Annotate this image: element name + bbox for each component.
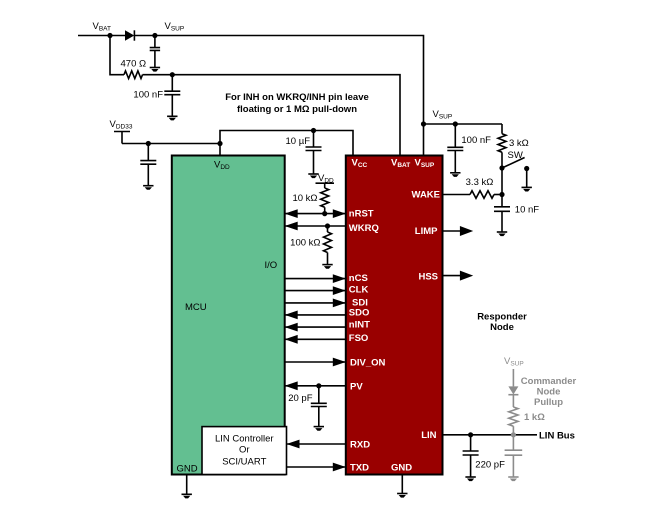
wire HSS: [443, 275, 461, 277]
arrow SDI right: [333, 299, 346, 308]
capacitor C3 (VDD33): [140, 144, 156, 186]
wire R3 to ground: [327, 253, 329, 265]
wire VSUP to R4: [501, 124, 503, 134]
svg-text:SCI/UART: SCI/UART: [222, 457, 266, 468]
wire TXD: [287, 466, 346, 468]
wire to MCU VDD pin: [219, 144, 221, 156]
wire SDO: [285, 314, 346, 316]
wire MCU GND: [186, 475, 188, 495]
arrow RXD left: [287, 440, 300, 449]
arrow SDO left: [285, 311, 298, 320]
ground MCU: [182, 494, 192, 498]
wire R5 to node: [494, 194, 502, 196]
svg-text:nCS: nCS: [349, 273, 368, 284]
node junction VDD/VCC: [217, 141, 222, 146]
wire VSUP rail to VSUP pin: [134, 36, 423, 156]
ground C2: [167, 116, 177, 120]
svg-text:Or: Or: [239, 445, 250, 456]
svg-text:MCU: MCU: [185, 302, 207, 313]
svg-text:FSO: FSO: [349, 333, 369, 344]
wire PV: [285, 385, 346, 387]
svg-text:10 nF: 10 nF: [515, 204, 539, 215]
arrow nINT left: [285, 323, 298, 332]
svg-text:10 kΩ: 10 kΩ: [292, 193, 317, 204]
svg-text:For INH on WKRQ/INH pin leave: For INH on WKRQ/INH pin leave: [225, 92, 369, 103]
svg-text:CLK: CLK: [349, 284, 369, 295]
svg-text:LIMP: LIMP: [415, 226, 438, 237]
ground C4: [308, 174, 318, 178]
svg-text:Responder: Responder: [477, 312, 527, 323]
arrow PV left: [285, 381, 298, 390]
ground C5: [314, 427, 324, 431]
node junction WAKE: [499, 192, 504, 197]
wire nRST: [285, 213, 346, 215]
ground C7: [497, 232, 507, 236]
svg-text:3.3 kΩ: 3.3 kΩ: [466, 177, 494, 188]
wire RXD: [287, 443, 346, 445]
ground C9 (gray): [508, 477, 518, 481]
node junction PV cap: [316, 383, 321, 388]
ground C6: [450, 173, 460, 177]
node junction 100nF: [170, 72, 175, 77]
arrow nRST left: [285, 209, 298, 218]
svg-text:HSS: HSS: [418, 272, 438, 283]
svg-text:nRST: nRST: [349, 209, 374, 220]
svg-text:Node: Node: [490, 322, 514, 333]
node junction VDD33 cap: [146, 141, 151, 146]
diode D1: [125, 30, 134, 40]
svg-text:nINT: nINT: [349, 319, 370, 330]
wire VCC rail: [220, 131, 353, 156]
arrow nRST right: [333, 209, 346, 218]
capacitor C6 100 nF: [447, 124, 463, 173]
wire R4 to switch node: [501, 152, 503, 194]
transceiver IC box U1: [346, 156, 443, 475]
svg-text:floating or 1 MΩ pull-down: floating or 1 MΩ pull-down: [237, 104, 357, 115]
svg-text:3 kΩ: 3 kΩ: [509, 138, 529, 149]
resistor R1 470ohm: [124, 71, 143, 79]
capacitor C5 20 pF: [311, 386, 327, 427]
capacitor C8 220 pF: [463, 435, 479, 477]
wire R2 to nRST: [324, 207, 326, 213]
wire WKRQ to R3: [327, 226, 329, 232]
node junction nRST: [322, 211, 327, 216]
wire diode to R6: [512, 395, 514, 407]
arrow WKRQ left: [285, 222, 298, 231]
LIN controller box U3: [202, 427, 287, 475]
resistor R3 100 kohm: [324, 232, 332, 253]
capacitor C1 (VSUP filter): [150, 36, 160, 68]
wire VBAT rail: [78, 35, 125, 37]
node junction WKRQ: [325, 223, 330, 228]
MCU box: [172, 156, 285, 475]
switch SW contact: [524, 166, 529, 171]
wire SDI: [285, 302, 346, 304]
arrow DIV_ON right: [333, 358, 346, 367]
svg-text:100 nF: 100 nF: [461, 135, 491, 146]
node junction 10uF: [311, 128, 316, 133]
svg-text:100 nF: 100 nF: [133, 89, 163, 100]
node junction VBAT: [107, 33, 112, 38]
wire VDD33 rail: [122, 143, 220, 145]
svg-text:I/O: I/O: [265, 260, 278, 271]
wire LIMP: [443, 230, 461, 232]
node junction VSUP-diode: [152, 33, 157, 38]
node junction VSUP branch: [421, 121, 426, 126]
ground IC: [397, 494, 407, 498]
wire WAKE: [443, 194, 471, 196]
wire VBAT to 470 ohm: [110, 36, 124, 75]
svg-text:PV: PV: [350, 382, 363, 393]
svg-text:RXD: RXD: [350, 440, 370, 451]
svg-text:DIV_ON: DIV_ON: [350, 358, 386, 369]
wire switch to ground: [526, 169, 528, 188]
svg-text:470 Ω: 470 Ω: [121, 59, 147, 70]
svg-text:TXD: TXD: [350, 463, 369, 474]
resistor R5 3.3 kohm: [470, 191, 494, 199]
svg-text:LIN: LIN: [421, 430, 436, 441]
svg-text:1 kΩ: 1 kΩ: [524, 412, 545, 423]
switch SW blade: [502, 158, 525, 169]
svg-text:100 kΩ: 100 kΩ: [290, 238, 320, 249]
arrow LIMP: [460, 226, 473, 236]
resistor R4 3 kohm: [498, 134, 506, 153]
arrow HSS: [460, 271, 473, 281]
wire DIV_ON: [285, 361, 346, 363]
ground SW: [522, 187, 532, 191]
wire WKRQ: [285, 225, 346, 227]
ground C8: [465, 477, 475, 481]
arrow CLK right: [333, 286, 346, 295]
svg-text:Commander: Commander: [521, 376, 577, 387]
svg-text:SDO: SDO: [349, 307, 370, 318]
capacitor C2 100 nF: [164, 75, 180, 116]
svg-text:220 pF: 220 pF: [475, 460, 505, 471]
ground R3: [322, 265, 332, 269]
svg-text:GND: GND: [391, 463, 412, 474]
svg-text:20 pF: 20 pF: [288, 393, 312, 404]
supply flag VDD33: [114, 132, 130, 144]
wire nINT: [285, 326, 346, 328]
arrow FSO left: [285, 335, 298, 344]
node junction 220pF: [468, 432, 473, 437]
arrow TXD right: [333, 463, 346, 472]
svg-text:10 µF: 10 µF: [286, 136, 311, 147]
wire FSO: [285, 338, 346, 340]
diode D2 commander (gray): [508, 386, 518, 394]
svg-text:GND: GND: [177, 464, 198, 475]
node junction commander LIN (gray): [511, 432, 516, 437]
svg-text:Node: Node: [537, 387, 561, 398]
resistor R2 10 kohm: [321, 188, 329, 207]
capacitor C9 commander (gray): [505, 435, 523, 477]
capacitor C7 10 nF: [494, 195, 510, 232]
wire IC GND: [401, 475, 403, 494]
wire CLK: [285, 290, 346, 292]
svg-text:Pullup: Pullup: [534, 397, 563, 408]
node junction 100nF-2: [453, 121, 458, 126]
ground C1: [150, 68, 160, 72]
node junction switch: [499, 165, 504, 170]
wire nCS: [285, 278, 346, 280]
wire VSUP branch: [424, 123, 503, 125]
svg-text:WAKE: WAKE: [412, 190, 441, 201]
capacitor C4 10 uF: [306, 131, 322, 174]
ground C3: [143, 186, 153, 190]
wire commander supply: [512, 369, 514, 386]
wire LIN: [443, 434, 538, 436]
svg-text:WKRQ: WKRQ: [349, 223, 379, 234]
wire R6 to LIN: [512, 426, 514, 435]
svg-text:LIN Controller: LIN Controller: [215, 434, 274, 445]
arrow nCS right: [333, 274, 346, 283]
resistor R6 1 kohm (gray): [509, 407, 518, 426]
svg-text:LIN Bus: LIN Bus: [539, 430, 575, 441]
wire 470 ohm to VBAT pin: [143, 75, 401, 156]
